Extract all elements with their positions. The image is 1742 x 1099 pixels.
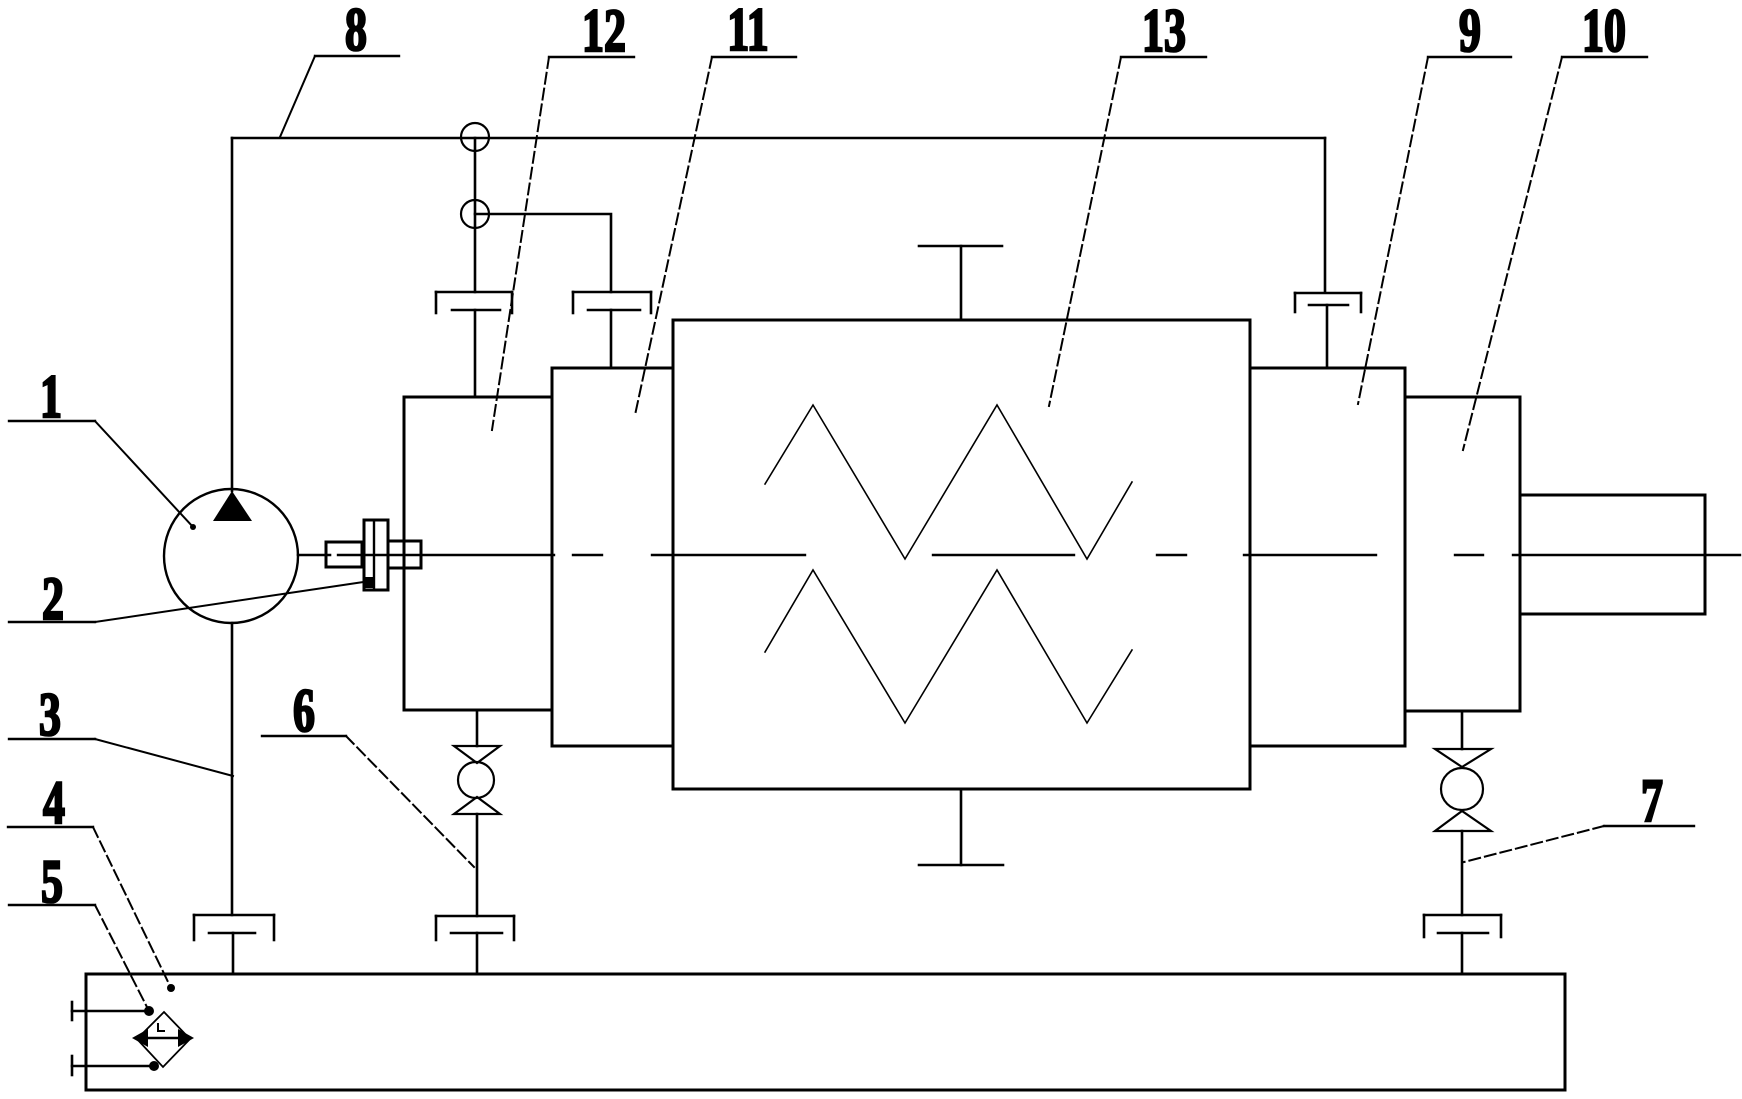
pipe: valve 6 to flange bbox=[476, 814, 479, 916]
filter 5 arrow bbox=[132, 1029, 194, 1047]
svg-text:12: 12 bbox=[582, 0, 626, 65]
coupling 2 disc divider bbox=[373, 520, 375, 590]
label 6 bbox=[262, 678, 474, 867]
coupling 2 disc pair bbox=[364, 520, 388, 590]
svg-text:8: 8 bbox=[345, 0, 367, 64]
drain flange G3 bbox=[1424, 915, 1501, 974]
label 4 bbox=[8, 770, 171, 988]
svg-text:6: 6 bbox=[293, 678, 315, 745]
filter 5 suction stub upper bbox=[72, 1002, 149, 1020]
rotor zigzag upper bbox=[765, 405, 1132, 559]
main casing 13 bbox=[673, 320, 1250, 789]
vent T top of casing bbox=[919, 246, 1002, 320]
wire: branch from lower circle to box 11 drop bbox=[475, 214, 611, 292]
label 11 bbox=[635, 0, 796, 415]
wire: pump to coupling bbox=[298, 554, 330, 557]
svg-text:7: 7 bbox=[1641, 768, 1663, 835]
oil tank 4 bbox=[86, 974, 1565, 1090]
svg-text:9: 9 bbox=[1459, 0, 1481, 65]
valve 7 bbox=[1435, 749, 1491, 831]
wire: between gauge circles bbox=[474, 138, 477, 292]
filter 5 suction stub lower bbox=[72, 1056, 154, 1075]
flange F2 on box 11 bbox=[573, 292, 651, 368]
vent T bottom of casing bbox=[919, 789, 1003, 865]
svg-text:11: 11 bbox=[727, 0, 768, 64]
rotor zigzag lower bbox=[765, 570, 1132, 723]
gauge circle lower bbox=[461, 200, 489, 228]
flange F3 on box 9 bbox=[1295, 293, 1361, 368]
label 8 bbox=[280, 0, 399, 137]
pipe: pump suction drop bbox=[231, 623, 234, 915]
pipe: box 10 drain bbox=[1461, 711, 1464, 749]
label 3 bbox=[9, 682, 233, 776]
filter 5 diamond bbox=[137, 1012, 190, 1067]
label 7 bbox=[1464, 768, 1694, 862]
label 10 bbox=[1463, 0, 1647, 450]
pump flow triangle bbox=[213, 491, 252, 521]
pump 1 circle bbox=[164, 489, 298, 623]
gauge circle upper bbox=[461, 123, 489, 151]
leader dot 4 bbox=[167, 984, 175, 992]
label 1 bbox=[9, 364, 196, 530]
drain flange G1 bbox=[436, 916, 514, 974]
svg-text:13: 13 bbox=[1142, 0, 1186, 65]
wire: left riser to pump bbox=[231, 138, 234, 491]
output shaft block bbox=[1520, 495, 1705, 614]
wire: top discharge line bbox=[232, 137, 1325, 140]
svg-text:10: 10 bbox=[1582, 0, 1626, 65]
coupling 2 hub left bbox=[326, 542, 362, 567]
label 12 bbox=[492, 0, 634, 430]
filter 5 inner mark bbox=[158, 1024, 164, 1031]
bearing box 12 bbox=[404, 397, 552, 710]
bearing box 9 bbox=[1250, 368, 1405, 746]
label 9 bbox=[1358, 0, 1511, 404]
gear box 11 bbox=[552, 368, 673, 746]
valve 6 bbox=[454, 746, 500, 814]
label 2 bbox=[9, 566, 374, 633]
label 5 bbox=[9, 849, 149, 1011]
end cover 10 bbox=[1405, 397, 1520, 711]
shaft centerline bbox=[338, 554, 1740, 556]
pipe: valve 7 to flange bbox=[1461, 831, 1464, 915]
junction dot lower bbox=[149, 1061, 159, 1071]
label 13 bbox=[1049, 0, 1206, 406]
suction flange G2 bbox=[194, 915, 274, 974]
coupling 2 hub right bbox=[388, 541, 421, 568]
flange F1 on box 12 bbox=[436, 292, 512, 397]
pipe: box 12 drain bbox=[476, 710, 479, 746]
wire: right drop from top line bbox=[1324, 138, 1327, 292]
junction dot upper bbox=[144, 1006, 154, 1016]
